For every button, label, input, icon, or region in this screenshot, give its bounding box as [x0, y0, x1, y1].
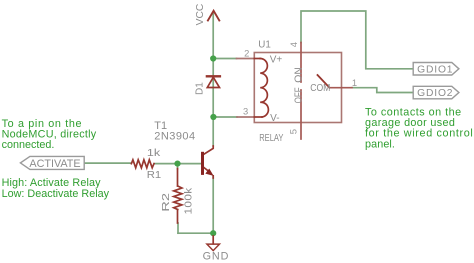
- svg-text:100k: 100k: [183, 187, 194, 214]
- svg-text:V-: V-: [270, 113, 279, 124]
- svg-text:U1: U1: [258, 39, 271, 50]
- svg-text:RELAY: RELAY: [259, 132, 283, 143]
- svg-text:1k: 1k: [147, 148, 161, 159]
- svg-text:D1: D1: [195, 82, 206, 95]
- svg-text:VCC: VCC: [195, 3, 206, 25]
- svg-text:V+: V+: [270, 55, 283, 66]
- svg-text:GDIO2: GDIO2: [417, 88, 453, 99]
- svg-text:Low: Deactivate Relay: Low: Deactivate Relay: [2, 188, 110, 200]
- svg-text:3: 3: [243, 106, 248, 117]
- svg-text:ACTIVATE: ACTIVATE: [29, 158, 80, 170]
- svg-text:2: 2: [244, 47, 249, 58]
- svg-text:R1: R1: [147, 169, 161, 181]
- svg-text:2N3904: 2N3904: [154, 130, 195, 142]
- svg-text:1: 1: [352, 77, 357, 88]
- svg-text:panel.: panel.: [365, 138, 395, 150]
- svg-text:GND: GND: [203, 250, 230, 262]
- svg-text:ON: ON: [294, 67, 305, 83]
- svg-text:R2: R2: [159, 193, 171, 212]
- svg-text:GDIO1: GDIO1: [417, 64, 453, 75]
- svg-text:COM: COM: [310, 83, 330, 95]
- svg-text:connected.: connected.: [2, 139, 55, 151]
- svg-text:5: 5: [288, 129, 299, 134]
- svg-text:4: 4: [288, 42, 299, 47]
- svg-text:OFF: OFF: [293, 87, 304, 103]
